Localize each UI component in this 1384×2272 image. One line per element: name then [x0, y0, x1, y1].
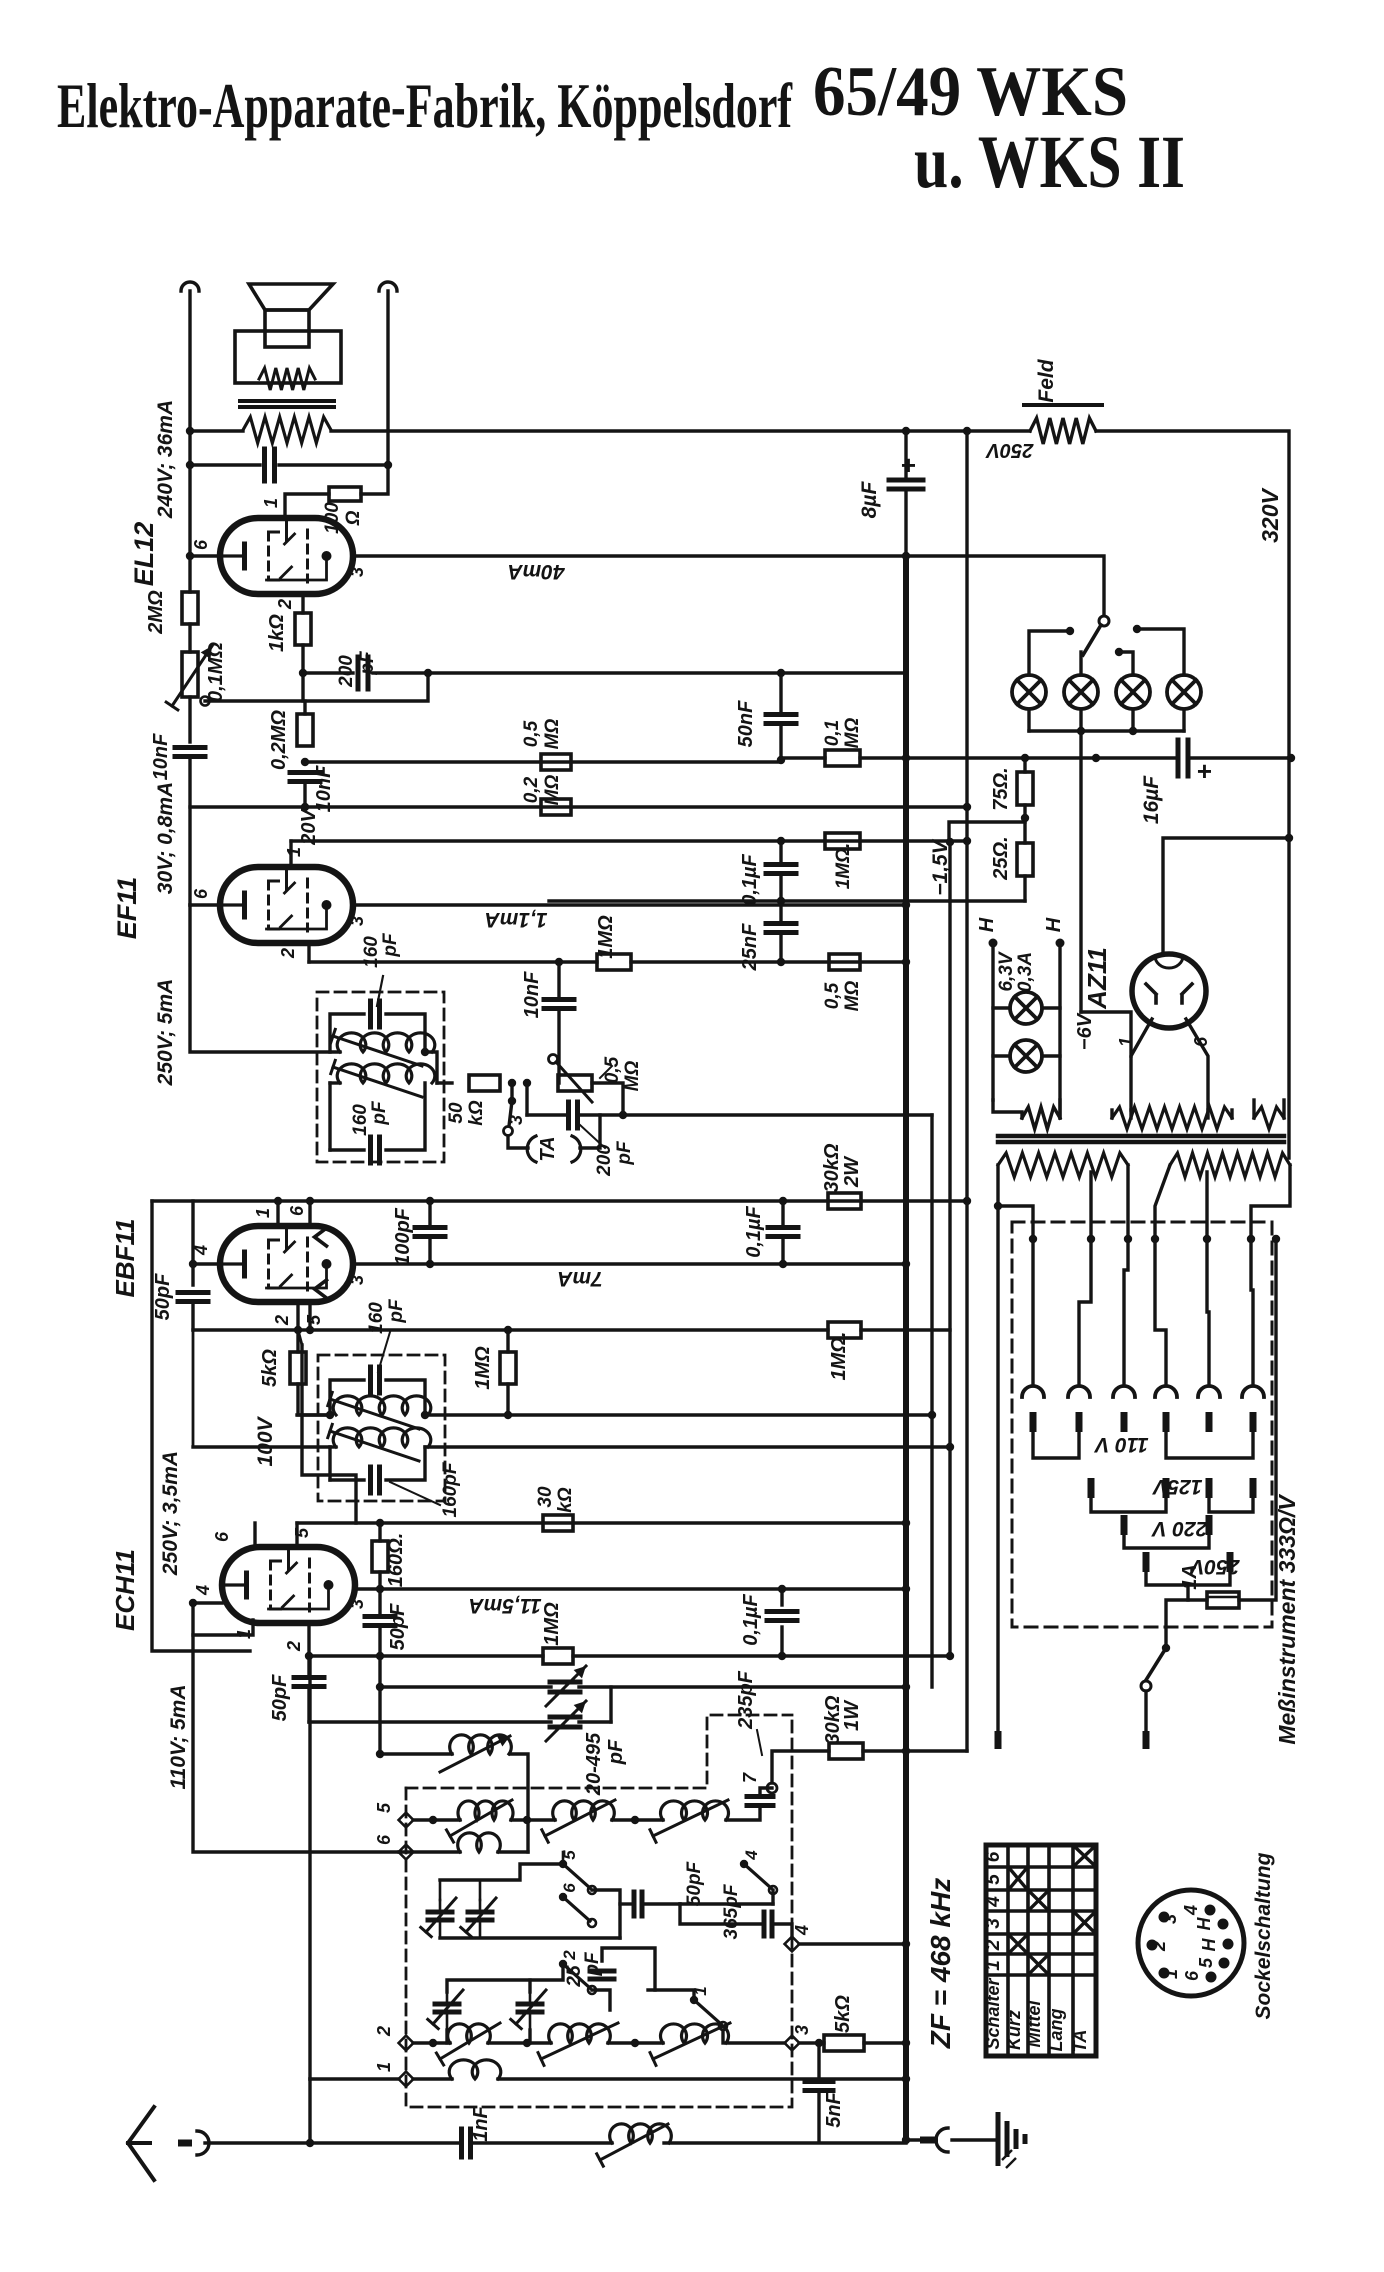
node 0,1uF ech top — [778, 1585, 786, 1593]
port 5 — [399, 1813, 414, 1828]
resistor 1kOhm — [295, 613, 311, 645]
wire line y962 — [309, 960, 597, 963]
node y1656-950 — [946, 1652, 954, 1660]
wire P1 right end — [1126, 1165, 1129, 1239]
wire P1 left end down — [998, 1165, 1033, 1239]
capacitor 8uF electrolytic — [889, 478, 923, 483]
node y1523-906 — [902, 1519, 910, 1527]
wire line y1523 — [297, 1521, 906, 1524]
wire EL12 pin2 down — [301, 594, 304, 613]
svg-text:0,1µF: 0,1µF — [739, 853, 761, 905]
node EL12 pin6 — [186, 552, 194, 560]
node y962-906 — [902, 958, 910, 966]
node y807-967 — [963, 803, 971, 811]
wire ECH11 pin2 down — [307, 1623, 310, 1656]
svg-text:1,1mA: 1,1mA — [484, 908, 547, 931]
svg-text:2W: 2W — [841, 1155, 863, 1188]
svg-text:ECH11: ECH11 — [110, 1549, 140, 1631]
svg-text:AZ11: AZ11 — [1082, 947, 1112, 1010]
svg-text:2: 2 — [275, 599, 295, 610]
node y758-906 — [902, 754, 910, 762]
svg-text:8µF: 8µF — [858, 481, 881, 519]
svg-text:4: 4 — [792, 1925, 812, 1936]
node P1 end corner — [994, 1202, 1002, 1210]
node y1589-906 — [902, 1585, 910, 1593]
bus 220V pins — [1121, 1515, 1128, 1535]
node x950 y842 — [946, 838, 954, 846]
svg-text:365pF: 365pF — [721, 1883, 742, 1939]
bus 125V left — [1091, 1498, 1166, 1512]
node EBF11 pin4 — [189, 1260, 197, 1268]
node y1944-906 — [902, 1940, 910, 1948]
svg-text:125V: 125V — [1151, 1475, 1202, 1498]
svg-text:0,2MΩ: 0,2MΩ — [268, 710, 290, 770]
wire EBF11 pin4 — [193, 1262, 220, 1265]
svg-text:50pF: 50pF — [152, 1273, 174, 1320]
svg-text:1: 1 — [374, 2062, 394, 2072]
wire EF11 plate line y905 — [353, 903, 906, 906]
svg-text:20V: 20V — [298, 808, 320, 846]
dial lamp 2 — [1064, 675, 1098, 709]
svg-text:250V; 3,5mA: 250V; 3,5mA — [159, 1451, 182, 1576]
resistor 0,2MOhm (grid EL12) — [297, 714, 313, 746]
svg-text:7: 7 — [740, 1772, 760, 1783]
svg-text:H: H — [1043, 917, 1065, 932]
node y1589-380 — [376, 1585, 384, 1593]
wire lamp sw right contact — [1137, 629, 1184, 675]
svg-text:Feld: Feld — [1035, 358, 1058, 402]
node 75-25 mid — [1021, 814, 1029, 822]
resistor 1MOhm vertical (det) — [506, 1330, 509, 1352]
svg-text:235pF: 235pF — [735, 1670, 757, 1730]
wire -1,5V elbow — [949, 822, 1025, 842]
port 7 — [767, 1783, 777, 1793]
selector contact 5 — [1198, 1386, 1220, 1397]
wire rowA link1 — [511, 1818, 555, 1821]
switch 2 — [559, 1960, 567, 1968]
potentiometer 0,1MOhm — [182, 652, 198, 697]
coil IF1 primary — [337, 1033, 435, 1052]
bus 250V pins — [1143, 1552, 1150, 1572]
svg-text:1MΩ: 1MΩ — [595, 915, 617, 959]
wire P1 tap — [1089, 1172, 1092, 1239]
node y841-967 — [963, 837, 971, 845]
svg-text:3: 3 — [347, 916, 367, 926]
node 0,2M bottom — [301, 758, 309, 766]
coil C2 — [549, 2024, 611, 2043]
node y1330-310 — [306, 1326, 314, 1334]
table X 5-Kurz — [1010, 1869, 1026, 1888]
svg-text:0,1µF: 0,1µF — [740, 1593, 762, 1645]
wire rowB right — [526, 1820, 529, 1852]
wire lamps bottom bus — [1027, 709, 1030, 731]
svg-text:1: 1 — [1116, 1037, 1136, 1047]
svg-text:TA: TA — [1070, 2030, 1090, 2053]
wire IF1 sec right — [437, 1081, 452, 1084]
heater winding B (AZ11) — [1112, 1107, 1232, 1129]
node y1415-932 — [928, 1411, 936, 1419]
wire lower rail2 — [447, 1964, 563, 1992]
wire lamp feed — [906, 556, 1104, 615]
svg-text:6: 6 — [1182, 1970, 1202, 1981]
output transformer core lines — [240, 399, 334, 403]
svg-text:2MΩ: 2MΩ — [145, 590, 167, 635]
pilot lamp 6,3V lower — [1010, 1040, 1042, 1072]
wire row1 from port1 — [310, 2077, 399, 2080]
svg-text:u. WKS II: u. WKS II — [914, 121, 1185, 204]
wire rowA link2 — [612, 1818, 663, 1821]
port 6 — [399, 1845, 414, 1860]
svg-text:4: 4 — [983, 1896, 1004, 1908]
node 200pF-623 — [619, 1111, 627, 1119]
coil D1 — [449, 2060, 501, 2079]
capacitor 235pF — [747, 1794, 773, 1799]
svg-text:Kurz: Kurz — [1004, 2010, 1024, 2050]
wire row1 to coil — [413, 2077, 452, 2080]
node cathode EL12 — [299, 669, 307, 677]
node tap6 — [1247, 1235, 1255, 1243]
capacitor 50pF EBF11 — [178, 1290, 208, 1295]
node y901-781 — [777, 897, 785, 905]
wire sw5 row — [592, 1890, 620, 1938]
svg-text:H: H — [1199, 1938, 1219, 1952]
node tap5 — [1203, 1235, 1211, 1243]
node y2079-906 — [902, 2075, 910, 2083]
wire line y807 — [190, 805, 967, 808]
node y1264-906 — [902, 1260, 910, 1268]
node row2-433 — [429, 2039, 437, 2047]
svg-text:50: 50 — [446, 1102, 467, 1124]
wire trimmer rail — [440, 1936, 620, 1939]
svg-text:160pF: 160pF — [440, 1461, 461, 1517]
node lamp sw left — [1066, 627, 1074, 635]
svg-text:Schalter: Schalter — [983, 1977, 1003, 2049]
coil A2 — [553, 1801, 615, 1820]
svg-text:0,5: 0,5 — [602, 1056, 623, 1083]
svg-text:Sockelschaltung: Sockelschaltung — [1252, 1852, 1275, 2019]
bandswitch dashed box — [406, 1715, 792, 1788]
wire Feld to right corner — [1096, 431, 1289, 1158]
wire ta switch — [510, 1083, 513, 1101]
svg-text:1A: 1A — [1179, 1564, 1201, 1590]
wire EF11 pin2 down — [307, 943, 310, 962]
wire EL12 plate line 40mA — [353, 554, 906, 557]
wire EBF11 pin2 down — [296, 1302, 299, 1330]
svg-text:3: 3 — [347, 1275, 367, 1285]
trimmer T2 — [468, 1910, 492, 1915]
speaker field winding zigzag — [259, 368, 315, 390]
svg-text:240V; 36mA: 240V; 36mA — [154, 400, 177, 519]
node 1M det top — [504, 1326, 512, 1334]
coil A3 — [661, 1801, 729, 1820]
ground terminal — [920, 2137, 938, 2144]
resistor 30kOhm 1W — [829, 1743, 863, 1759]
node row2-527 — [523, 2039, 531, 2047]
svg-text:250V: 250V — [985, 439, 1034, 461]
wire mains stub left — [996, 1206, 999, 1731]
svg-text:4: 4 — [742, 1850, 761, 1861]
coil C3 — [661, 2024, 729, 2043]
wire -6V elbow — [1081, 1012, 1131, 1056]
capacitor 0,1uF (30k) — [781, 1201, 784, 1224]
resistor 100 Ohm — [329, 487, 361, 501]
node tap2 — [1087, 1235, 1095, 1243]
wire line y1115 — [577, 1113, 932, 1116]
resistor 5kOhm (ant) — [824, 2035, 864, 2051]
port 2 — [399, 2036, 414, 2051]
svg-text:0,3A: 0,3A — [1015, 952, 1036, 992]
svg-text:pF: pF — [605, 1739, 627, 1765]
tube EL12 — [220, 518, 353, 594]
capacitor 200pF TA — [525, 1083, 528, 1115]
wire ECH11 plate line y1589 — [356, 1587, 906, 1590]
wire line y1754 — [380, 1752, 452, 1755]
svg-text:220 V: 220 V — [1151, 1517, 1209, 1540]
wire EBF11 pin4 left — [191, 1201, 194, 1285]
svg-text:2: 2 — [374, 2026, 394, 2037]
wire pot to 10nF — [188, 697, 191, 742]
capacitor 10nF mid — [290, 770, 320, 775]
wire line y1201 (250V rail) — [152, 1199, 965, 1202]
wire 100V riser — [302, 1345, 356, 1523]
svg-text:0,1µF: 0,1µF — [743, 1205, 765, 1257]
svg-text:25Ω.: 25Ω. — [990, 836, 1012, 880]
resistor 50kOhm — [469, 1075, 500, 1091]
wire drop c2 — [1079, 1239, 1091, 1385]
node ta-527 — [523, 1079, 531, 1087]
potentiometer 0,5MOhm — [558, 1075, 592, 1091]
capacitor 100pF — [428, 1201, 431, 1224]
switch 4 — [740, 1860, 748, 1868]
node plate-bus — [902, 552, 910, 560]
wire H rails — [991, 943, 994, 1100]
node y1754-380 — [376, 1750, 384, 1758]
selector pin 6 — [1250, 1412, 1257, 1432]
selector contact 4 — [1155, 1386, 1177, 1397]
svg-text:Elektro-Apparate-Fabrik, Köppe: Elektro-Apparate-Fabrik, Köppelsdorf — [57, 70, 792, 141]
svg-text:25nF: 25nF — [739, 923, 761, 971]
fuse 1A — [1188, 1585, 1207, 1600]
bus 110V right — [1166, 1432, 1253, 1458]
wire IF2 mid — [425, 1413, 932, 1416]
resistor 0,1MOhm (y758) — [825, 750, 860, 766]
switch 6 — [559, 1893, 567, 1901]
selector contact 1 — [1022, 1386, 1044, 1397]
wire TA right out — [580, 1115, 600, 1148]
svg-text:10nF: 10nF — [150, 733, 172, 780]
EL12 pin1 wire + 100 Ohm — [285, 494, 329, 518]
resistor 25 Ohm — [1023, 822, 1026, 843]
svg-text:200: 200 — [336, 655, 357, 688]
leader 0,5MOhm — [600, 1066, 612, 1078]
leader IF2 top — [378, 1332, 390, 1372]
capacitor 200pF — [356, 657, 361, 689]
wire EL12 pin6 — [190, 554, 220, 557]
node speaker cap right — [384, 461, 392, 469]
node y841-781 — [777, 837, 785, 845]
switch lamp pivot — [1099, 616, 1109, 626]
resistor 1MOhm (y841) — [825, 833, 860, 849]
coil IF2 primary — [333, 1396, 431, 1415]
IF1 bottom cap loop — [330, 1148, 364, 1151]
svg-text:3: 3 — [983, 1918, 1004, 1929]
resistor 30kOhm (osc) — [543, 1515, 573, 1531]
svg-text:1: 1 — [983, 1960, 1004, 1971]
wire line y758 — [305, 760, 781, 763]
IF1 top cap loop — [330, 1014, 364, 1052]
svg-text:1kΩ: 1kΩ — [266, 614, 288, 652]
wire port7 riser — [772, 1751, 829, 1783]
IF2 dashed box — [318, 1355, 445, 1501]
svg-text:2: 2 — [284, 1641, 304, 1652]
svg-text:MΩ: MΩ — [542, 719, 563, 750]
capacitor 0,1uF (ECH11) — [780, 1589, 783, 1605]
wire rowB — [399, 1850, 460, 1853]
svg-text:5: 5 — [304, 1314, 324, 1325]
port 3 — [785, 2036, 800, 2051]
svg-text:1: 1 — [261, 498, 281, 508]
svg-text:3: 3 — [1160, 1914, 1180, 1924]
wire line y1330 — [193, 1328, 828, 1331]
svg-text:100pF: 100pF — [392, 1207, 414, 1266]
node ground-906 — [902, 2136, 910, 2144]
svg-text:3: 3 — [506, 1115, 526, 1125]
wire line y1447 — [193, 1445, 330, 1448]
node rowA-433 — [429, 1816, 437, 1824]
node 50nF top — [777, 669, 785, 677]
node AZ11 feed right — [1285, 834, 1293, 842]
node y758-1291 — [1287, 754, 1295, 762]
wire EBF11 plate line y1264 — [353, 1262, 906, 1265]
wire 10nF mid to y807 — [303, 784, 306, 807]
coil B1 — [458, 1833, 501, 1852]
wire EBF11 pin6 riser — [308, 1201, 311, 1226]
wire P2 right end — [1251, 1165, 1290, 1239]
wire line y1722 — [309, 1720, 551, 1723]
IF1 dashed box — [317, 992, 444, 1162]
table X 1-Mittel — [1030, 1956, 1047, 1973]
svg-text:6: 6 — [212, 1531, 232, 1542]
svg-text:30: 30 — [535, 1486, 556, 1508]
svg-text:5kΩ: 5kΩ — [832, 1995, 854, 2033]
wire thick main bus x906 — [903, 556, 909, 2137]
IF2 top cap loop — [330, 1380, 364, 1415]
node y1201-310 — [306, 1197, 314, 1205]
svg-text:40mA: 40mA — [507, 560, 565, 583]
bus 125V pins — [1088, 1478, 1095, 1498]
svg-text:1: 1 — [253, 1208, 273, 1218]
svg-text:1MΩ.: 1MΩ. — [833, 843, 854, 890]
capacitor 50nF — [779, 673, 782, 712]
svg-text:100: 100 — [322, 502, 343, 534]
svg-text:2: 2 — [272, 1315, 292, 1326]
selector pin 2 — [1076, 1412, 1083, 1432]
svg-text:50pF: 50pF — [387, 1603, 409, 1650]
wire IF1 link — [425, 1052, 437, 1083]
svg-text:pF: pF — [369, 1100, 390, 1126]
node y1201-430 — [426, 1197, 434, 1205]
bus 125V right — [1209, 1498, 1253, 1512]
TA arc right — [572, 1136, 581, 1162]
svg-text:30V; 0,8mA: 30V; 0,8mA — [154, 782, 177, 894]
svg-text:6: 6 — [287, 1205, 307, 1216]
svg-text:0,5: 0,5 — [521, 720, 542, 747]
svg-text:20-495: 20-495 — [583, 1732, 605, 1796]
node ta-512 — [508, 1079, 516, 1087]
node y1656-380 — [376, 1652, 384, 1660]
svg-text:4: 4 — [1181, 1905, 1201, 1916]
svg-text:1nF: 1nF — [470, 2105, 492, 2141]
wire line y1687 (padder) — [380, 1685, 551, 1688]
svg-text:pF: pF — [614, 1140, 635, 1166]
selector pin 5 — [1206, 1412, 1213, 1432]
node lamp feed tap — [963, 427, 971, 435]
capacitor 365pF — [762, 1912, 767, 1936]
svg-text:3: 3 — [347, 567, 367, 577]
wire ECH11 pin6 — [253, 1523, 256, 1547]
node y1656-309 — [305, 1652, 313, 1660]
svg-text:160Ω.: 160Ω. — [385, 1533, 407, 1588]
wire sw1 links — [648, 1990, 694, 2000]
node lamps bus lamp3 — [1129, 727, 1137, 735]
node speaker cap left — [186, 461, 194, 469]
table X 3-TA — [1075, 1913, 1094, 1932]
svg-text:10nF: 10nF — [521, 971, 543, 1018]
node H right — [1056, 939, 1065, 948]
svg-text:EBF11: EBF11 — [110, 1219, 140, 1298]
svg-text:160: 160 — [361, 936, 382, 968]
tube ECH11 — [222, 1547, 355, 1623]
coil IF1 secondary — [337, 1064, 435, 1083]
svg-text:−6V: −6V — [1074, 1012, 1096, 1050]
svg-text:6,3V: 6,3V — [996, 951, 1017, 991]
node y1201-783 — [779, 1197, 787, 1205]
wire sw4 link — [771, 1890, 774, 1904]
svg-text:4: 4 — [193, 1585, 213, 1596]
dial lamp 1 — [1012, 675, 1046, 709]
wire main B+ top line — [190, 429, 243, 432]
svg-text:250V; 5mA: 250V; 5mA — [154, 979, 177, 1087]
wire drop c4 — [1155, 1239, 1166, 1385]
wire row1 long — [498, 2077, 906, 2080]
heater winding A — [1022, 1107, 1060, 1129]
wire 25 Ohm bottom — [950, 899, 1025, 902]
selector pin 4 — [1163, 1412, 1170, 1432]
capacitor 16uF — [1176, 740, 1181, 776]
svg-text:50pF: 50pF — [684, 1860, 705, 1906]
svg-text:MΩ: MΩ — [542, 775, 563, 806]
capacitor 160pF IF1 top — [368, 1001, 373, 1027]
node y905-906 — [902, 901, 910, 909]
resistor 160 Ohm — [378, 1523, 381, 1541]
trimmer T3 — [435, 2002, 459, 2007]
port 4 — [785, 1937, 800, 1952]
node tap3 — [1124, 1235, 1132, 1243]
voltage selector dashed box — [1012, 1222, 1272, 1627]
svg-text:2: 2 — [278, 948, 298, 959]
node y1201-967 — [963, 1197, 971, 1205]
svg-text:11,5mA: 11,5mA — [468, 1594, 541, 1617]
speaker voice coil box — [265, 310, 309, 347]
capacitor 160pF IF1 bottom — [368, 1137, 373, 1163]
wire 30k1W right — [863, 1749, 967, 1752]
wire AZ11 pin6 lead — [1186, 1019, 1208, 1110]
capacitor 0,1uF ladder — [779, 841, 782, 862]
node 8uF tap — [902, 427, 910, 435]
svg-text:110 V: 110 V — [1093, 1433, 1148, 1456]
wire speaker cap line — [190, 463, 260, 466]
node lamp3 elbow — [1115, 648, 1123, 656]
